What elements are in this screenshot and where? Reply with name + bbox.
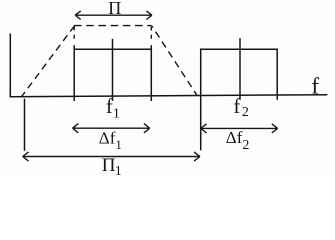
Pi1 total width double arrow [23, 156, 200, 158]
dashed envelope left slant [22, 26, 75, 97]
dashed envelope right slant [152, 26, 197, 95]
band 2 left edge and reference drop line [200, 49, 202, 150]
band 1 carrier line f1 [112, 39, 114, 101]
frequency axis [10, 95, 328, 97]
band 1 left edge [73, 45, 75, 101]
dashed right vertical drop [150, 27, 152, 41]
band 2 right edge [276, 49, 278, 100]
svg-text:Π: Π [108, 0, 121, 18]
band 1 top edge [74, 48, 153, 50]
band 2 top edge [200, 48, 278, 50]
dashed left vertical drop [73, 27, 75, 41]
svg-text:f: f [311, 74, 319, 99]
left reference drop line for Pi1 [24, 99, 26, 151]
band 2 carrier line f2 [239, 38, 241, 99]
vertical amplitude axis [9, 34, 11, 98]
dashed envelope top [74, 25, 152, 27]
Pi width double arrow [75, 14, 152, 16]
delta f1 double arrow [73, 127, 150, 129]
delta f2 double arrow [201, 127, 278, 129]
band 1 right edge [150, 45, 152, 101]
